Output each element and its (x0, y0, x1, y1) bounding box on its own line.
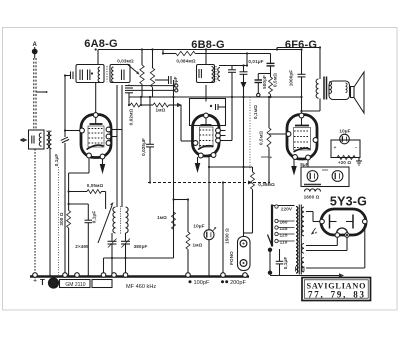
V1 anode bar (90, 123, 103, 125)
transformer core (298, 205, 300, 275)
FONO jack (238, 237, 251, 271)
V3 grids (294, 131, 310, 148)
trimmer capacitor (tilted) (61, 137, 69, 143)
secondary heater winding (302, 258, 304, 272)
coupling cap 0,025uF column (149, 97, 151, 144)
chassis ground bus (30, 275, 249, 278)
V2 inner box (200, 127, 214, 147)
wire can1 to tube1 top (95, 83, 97, 114)
tube V1 6A8-G envelope (81, 115, 111, 158)
tone pot 0,35M (252, 167, 254, 172)
resistor R 0,03M vertical (141, 50, 143, 66)
resistor 1500 ohm (222, 183, 224, 277)
V3 grid wire (269, 133, 287, 135)
V2 anode bar (201, 124, 212, 126)
V2 grids (200, 130, 213, 146)
loudspeaker (329, 81, 350, 100)
filter choke 1600 ohm (304, 183, 321, 185)
resistor 0,084M horizontal on supply line (163, 53, 176, 55)
IF2 secondary winding (218, 68, 220, 81)
mains cap 0,01uF (279, 249, 281, 261)
oscillator can (IF can 1) (76, 65, 104, 83)
resistor 0,5M grid (268, 97, 270, 128)
logo roundel (48, 277, 59, 288)
V1 cathode arrow to ground (102, 159, 104, 166)
resistor 0,02M horizontal (129, 103, 141, 107)
mains bottom wire with arrow (270, 275, 339, 277)
spare box (92, 280, 112, 288)
5Y3 wires (313, 221, 320, 223)
capacitor 0,1uF (69, 203, 89, 205)
V3 pins (286, 113, 318, 160)
V2 cathode network 10uF (208, 157, 210, 230)
volume potentiometer dotted link (249, 97, 251, 170)
mid horizontal rail (129, 96, 302, 98)
trimmer cap left 380pF (111, 233, 113, 241)
IF2 core (215, 66, 217, 82)
grid coupling caps column (128, 85, 130, 86)
V3 cathode arrow (293, 159, 295, 166)
type box GM 2110 (60, 280, 91, 288)
resistor 0,5M column (269, 77, 273, 94)
output transformer (319, 48, 321, 80)
capacitor 0,05uF (155, 79, 168, 81)
tube V2 6B8-G envelope (193, 115, 220, 156)
diode cap column 1 (231, 66, 233, 70)
rectifier tube 5Y3 (321, 209, 366, 235)
voltage selector bar (271, 205, 273, 247)
secondary rectifier filament winding (302, 244, 304, 254)
V3 screen wire (307, 160, 309, 168)
IF1 secondary winding (106, 66, 108, 82)
diode cap column 2 (246, 54, 248, 66)
coil box 2 (110, 65, 130, 83)
maker plate SAVIGLIANO (302, 278, 371, 301)
V2 diode pin wires (221, 130, 226, 132)
cap 500pF column (258, 73, 270, 75)
shield dotted wire (58, 167, 60, 275)
padding cap left of can1 (70, 72, 72, 80)
trimmer cap right 380pF (125, 233, 127, 241)
grid stopper box above tube V2 (205, 85, 207, 102)
resistor 1M vertical on avc rail (172, 212, 176, 229)
filter electrolytics box (301, 167, 349, 187)
wire to FONO (209, 166, 244, 168)
primary taps (272, 205, 295, 207)
main vertical avc rail (173, 80, 175, 258)
mains switch (268, 235, 272, 246)
wire L2 to bus (49, 148, 51, 276)
pickup terminal wires (133, 85, 175, 87)
antenna lead-in dashed wire (33, 58, 35, 129)
oscillator padder arrow (98, 206, 112, 244)
plate supply top wire (277, 47, 320, 49)
wire grid line to tube1 left pin (65, 130, 80, 132)
antenna tap tick (36, 91, 46, 93)
node arrow into coil (20, 139, 22, 141)
resistor vertical 2 (152, 50, 154, 69)
ground symbol (358, 158, 360, 162)
bus junctions (33, 273, 248, 278)
antenna coil box (29, 130, 45, 149)
V1 grid-2 wire (111, 129, 122, 131)
V1 cathode branch (88, 159, 90, 174)
tube V3 6F6-G envelope (287, 115, 317, 160)
V2 cathode arrow (197, 157, 199, 163)
RF transformer L2 windings (47, 131, 49, 149)
V3 cathode (294, 148, 311, 152)
wire ant coil to ground bus (34, 149, 36, 272)
IF transformer 2 can (197, 65, 215, 83)
oscillator coil windings (113, 207, 116, 233)
AVC arrow (241, 82, 247, 89)
secondary HV winding (302, 207, 304, 236)
top supply wire (98, 49, 302, 51)
V3 anode bar (295, 125, 309, 127)
V2 cathode (198, 146, 214, 150)
power transformer primary winding (296, 207, 298, 274)
interference cap marks (295, 267, 297, 272)
resistor 1M horizontal (141, 104, 153, 106)
V3 inner box (294, 128, 311, 151)
resistor 1M (cathode) (187, 200, 189, 233)
grid rail to tube2 (180, 105, 182, 141)
V1 grids (89, 129, 104, 144)
dashed AF line (148, 182, 248, 184)
V2 pins (193, 113, 220, 158)
V1 inner box (88, 126, 104, 147)
wire horiz (174, 199, 189, 201)
V1 cathode (87, 145, 104, 149)
V1 pins (80, 113, 111, 159)
